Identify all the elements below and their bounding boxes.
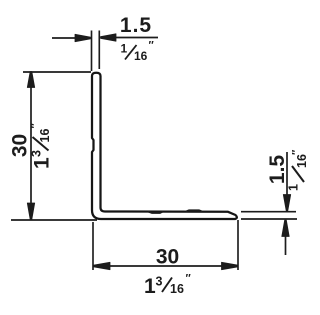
svg-text:30: 30 [156,246,179,269]
left dimension arrow pointing up [27,72,34,88]
svg-text:″: ″ [30,123,42,129]
right dimension inch value 1/16" (rotated) [287,149,310,191]
right dimension upper arrow line [286,152,288,198]
top dimension arrow pointing right [75,34,91,41]
bottom dimension line [94,265,239,267]
svg-text:1: 1 [287,184,301,191]
top dimension line, right segment [101,37,159,39]
right dimension lower arrow line [285,234,287,255]
left dimension arrow pointing down [27,203,34,220]
angle profile cross-section outline [92,73,237,219]
top dimension line, left segment [52,37,88,39]
right dimension: lower extension line [241,218,297,220]
bottom dimension inch value 1 3/16" [144,273,192,299]
svg-text:1: 1 [121,42,128,56]
svg-text:16: 16 [170,282,184,296]
top dimension inch value 1/16" [121,40,155,64]
bottom dimension arrow pointing left [94,262,111,269]
leg top-line notch 2 [186,210,202,211]
left dimension: top extension line [23,71,91,73]
svg-text:1.5: 1.5 [266,155,289,185]
svg-text:″: ″ [149,40,155,52]
svg-text:1: 1 [31,157,54,169]
svg-text:16: 16 [295,154,309,168]
svg-text:″: ″ [186,273,192,285]
left dimension: bottom extension line [11,219,97,221]
svg-text:3: 3 [156,275,163,289]
left dimension inch value 1 3/16" (rotated) [30,123,54,170]
bottom dimension arrow pointing right [222,262,239,269]
leg top-line notch 1 [148,212,163,214]
bottom dimension: left extension line [92,222,94,270]
right dimension arrow pointing down [283,195,290,211]
svg-text:″: ″ [291,149,303,155]
top dimension: extension line left (wall outer extended up) [91,31,93,72]
right dimension: upper extension line [241,211,296,213]
svg-text:16: 16 [134,49,148,63]
svg-text:16: 16 [38,129,52,143]
top dimension: extension line right (wall inner extended up) [98,31,100,70]
bottom dimension: right extension line [237,220,239,270]
svg-text:30: 30 [9,134,32,157]
svg-text:1.5: 1.5 [120,14,152,37]
svg-text:3: 3 [30,150,44,157]
svg-text:1: 1 [144,275,156,298]
right dimension arrow pointing up [282,220,289,237]
top dimension arrow pointing left [101,34,117,41]
left dimension line [30,72,32,220]
